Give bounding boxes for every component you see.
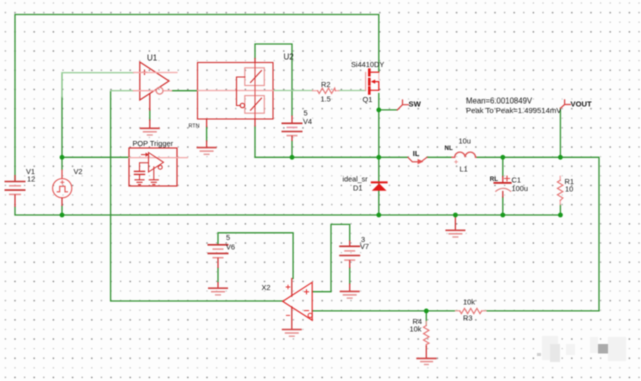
wire U1 plus input from node A vertical <box>61 97 63 157</box>
inductor L1 polarity tick <box>455 160 458 163</box>
wire RTN pin middle <box>206 127 208 142</box>
wire SW rail to inductor <box>255 156 452 158</box>
wire V2 bottom stub <box>61 206 63 215</box>
source V4 battery <box>282 116 303 142</box>
wire U2 box to R2 <box>273 90 313 92</box>
svg-text:10u: 10u <box>459 137 471 146</box>
wire R4 top leg <box>425 311 427 325</box>
transistor Q1 internal faint line <box>378 73 380 80</box>
wire U2 box top pin bracket to V4 top <box>255 44 292 116</box>
wire R2 to Q1 gate <box>339 90 366 92</box>
svg-text:VOUT: VOUT <box>571 99 592 108</box>
wire bottom ground rail <box>15 207 560 215</box>
junction VOUT probe node <box>558 155 563 160</box>
svg-text:10k: 10k <box>463 298 475 307</box>
wire U1 output to U2 box <box>172 90 198 92</box>
svg-text:Peak To Peak=1.499514mV: Peak To Peak=1.499514mV <box>466 106 562 115</box>
svg-text:ideal_sr: ideal_sr <box>343 175 369 184</box>
switch S1 inner box <box>245 68 264 86</box>
svg-text:100u: 100u <box>512 184 528 193</box>
ground main power rail <box>445 215 465 237</box>
wire V7 top to X2 plus input <box>312 224 349 291</box>
transistor Q1 drain lead <box>371 71 379 73</box>
svg-text:R3: R3 <box>463 313 472 322</box>
wire U2 box bottom pin down to rail <box>254 126 256 157</box>
wire V7 bottom to ground <box>349 268 351 284</box>
source V7 battery <box>339 241 360 269</box>
U2 bottom pin stub <box>254 119 256 126</box>
wire C1 bottom leg <box>502 197 504 215</box>
junction D1 anode ground rail node <box>376 213 381 218</box>
svg-text:5: 5 <box>226 233 230 242</box>
svg-text:10: 10 <box>565 184 573 193</box>
svg-text:Q1: Q1 <box>363 95 373 104</box>
op-amp U1 plus mark <box>142 70 146 74</box>
resistor R4 <box>425 322 427 347</box>
wire X2 output to U1 minus input <box>111 91 283 301</box>
wire V1 top to Q1 drain (top rail) <box>15 15 379 181</box>
probe VOUT symbol <box>560 100 570 109</box>
svg-text:V4: V4 <box>303 117 312 126</box>
svg-text:POP Trigger: POP Trigger <box>133 139 174 148</box>
switch common vertical line <box>254 63 256 120</box>
source V2 pulse <box>53 170 72 207</box>
svg-text:V2: V2 <box>74 167 83 176</box>
svg-text:RL: RL <box>490 176 498 183</box>
RTN pin stub <box>206 119 208 148</box>
ground below R4 <box>416 358 436 364</box>
capacitor C1 plus sign <box>505 176 510 181</box>
svg-text:R2: R2 <box>321 80 330 89</box>
wire C1 top leg <box>502 157 504 176</box>
junction C1 top VOUT rail node <box>500 155 505 160</box>
svg-text:V7: V7 <box>360 242 369 251</box>
switch S2 inverting bubble <box>240 103 244 107</box>
wire feedback X2 minus to R3 to right corner <box>312 310 599 312</box>
svg-text:IL: IL <box>413 149 420 158</box>
svg-text:10k: 10k <box>410 325 422 334</box>
svg-text:1.5: 1.5 <box>321 95 331 104</box>
wire R1 bottom leg <box>559 205 561 216</box>
capacitor C1 plates <box>494 182 511 184</box>
wire D1 branch <box>378 157 380 215</box>
wire VOUT rail from inductor to right edge down to feedback <box>476 157 599 311</box>
wire U1 power pin middle <box>149 110 151 120</box>
junction V4 bottom rail node <box>290 155 295 160</box>
ground below V7 <box>340 284 360 299</box>
resistor R3 <box>456 310 487 312</box>
op-amp U1 inverting bubble <box>156 87 163 94</box>
junction SW probe node <box>376 108 381 113</box>
wire VOUT probe leg <box>559 108 561 157</box>
source V1 battery <box>5 175 26 207</box>
svg-text:U2: U2 <box>284 52 295 61</box>
wire rail V2 to POP trigger <box>62 156 129 158</box>
diode D1 <box>372 181 387 183</box>
svg-text:NL: NL <box>445 145 453 152</box>
probe SW symbol <box>397 100 408 110</box>
svg-text:V6: V6 <box>226 243 235 252</box>
op-amp U1 input pin lines pink <box>134 73 178 91</box>
switch S1 lever <box>251 71 262 83</box>
svg-text:L1: L1 <box>460 165 468 174</box>
switch block control line pink <box>198 90 274 92</box>
wire V6 bottom to ground <box>217 268 219 282</box>
ground below RTN <box>197 148 217 155</box>
wire SW node to probe <box>379 109 398 111</box>
wire V2 top stub <box>61 157 63 169</box>
inductor L1 <box>452 152 476 157</box>
ground below X2 <box>282 330 302 337</box>
svg-text:D1: D1 <box>353 183 362 192</box>
source V6 battery <box>208 245 229 268</box>
transistor Q1 channel bars <box>368 70 371 94</box>
svg-text:RTN: RTN <box>189 124 200 130</box>
svg-text:U1: U1 <box>147 54 158 63</box>
watermark blobs bottom right <box>537 336 626 362</box>
wire U1 plus input horizontal <box>62 72 134 74</box>
op-amp U1 power pin <box>149 94 151 128</box>
ground below V6 <box>208 282 228 295</box>
U2 top pin stub <box>254 59 256 63</box>
junction V2 bottom ground rail node <box>60 213 65 218</box>
junction V2 top node <box>60 155 65 160</box>
POP trigger box <box>129 148 188 186</box>
probe IL current arrow <box>408 157 427 162</box>
switch control branch lines <box>237 77 245 106</box>
transistor Q1 body arrow <box>371 82 379 91</box>
svg-text:Mean=6.0010849V: Mean=6.0010849V <box>466 96 533 105</box>
svg-text:12: 12 <box>27 174 35 183</box>
switch S2 lever <box>251 98 262 110</box>
junction R1 bottom ground rail node <box>558 213 563 218</box>
junction ground stem node <box>453 213 458 218</box>
op-amp X2 <box>283 279 313 330</box>
ground below U1 <box>140 128 160 135</box>
wire U1 minus horizontal light <box>111 90 134 92</box>
wire V4 bottom to rail <box>291 141 293 157</box>
switch S2 inner box <box>245 96 264 114</box>
wire Q1 source down to SW rail <box>378 94 380 158</box>
transistor Q1 gate bar <box>365 73 367 91</box>
svg-text:Si4410DY: Si4410DY <box>351 60 384 69</box>
junction R3 R4 feedback node <box>424 309 429 314</box>
resistor R1 <box>559 176 561 204</box>
op-amp U1 body <box>140 62 169 100</box>
junction D1 cathode SW rail node <box>376 155 381 160</box>
junction C1 bottom ground rail node <box>500 213 505 218</box>
resistor R2 <box>313 90 339 92</box>
svg-text:X2: X2 <box>262 283 271 292</box>
capacitor C1 pin stubs <box>502 177 504 198</box>
wire V6 top to X2 plus supply <box>218 233 293 279</box>
switch block U2 outer box <box>198 63 274 120</box>
svg-text:SW: SW <box>409 100 422 109</box>
